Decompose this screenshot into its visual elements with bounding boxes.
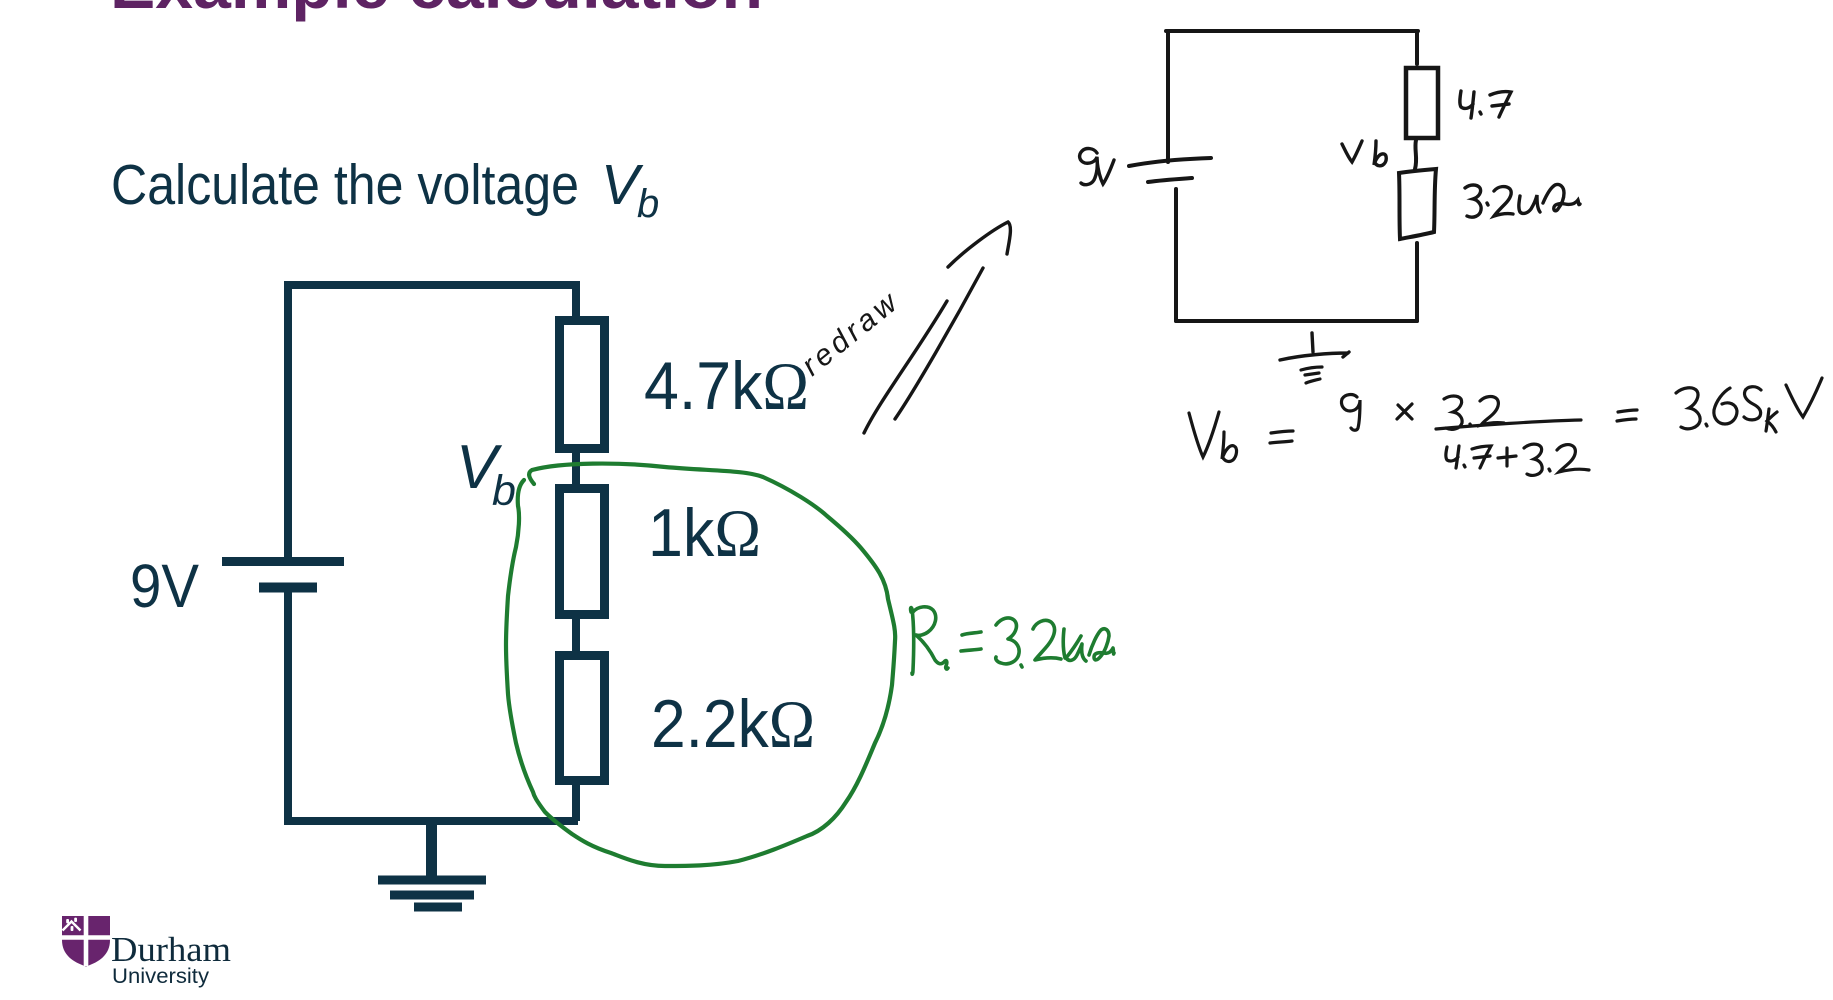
hw wire left upper <box>1166 31 1170 162</box>
green ohm cursive <box>1089 629 1114 660</box>
svg-text:1kΩ: 1kΩ <box>648 495 761 571</box>
formula second = <box>1617 410 1637 421</box>
svg-text:Durham: Durham <box>111 930 231 969</box>
logo lions <box>66 918 77 931</box>
formula 9 <box>1341 395 1360 431</box>
formula V <box>1189 412 1219 457</box>
battery 9V short plate <box>259 583 317 593</box>
battery 9V long plate <box>222 557 344 566</box>
wire R3 to bottom <box>572 782 580 821</box>
prompt text "Calculate the voltage Vb" <box>111 153 659 226</box>
logo shield cross horizontal <box>62 935 110 940</box>
hw label 4.7 <box>1460 91 1511 118</box>
green = <box>961 632 981 651</box>
hw wire between resistors <box>1415 140 1416 169</box>
formula result 3.65kV <box>1676 388 1700 429</box>
svg-text:b: b <box>637 182 659 226</box>
hw resistor 3.2k body <box>1399 169 1436 239</box>
green text R = 3.2kOhm <box>911 607 1114 674</box>
green R <box>911 608 914 675</box>
hw label 3.2k ohm <box>1465 184 1580 217</box>
arrowhead <box>948 222 1010 267</box>
hw battery long plate <box>1129 158 1211 166</box>
formula denominator 4.7+3.2 <box>1446 446 1459 468</box>
hw battery short plate <box>1148 178 1192 182</box>
formula = <box>1270 431 1293 443</box>
svg-text:b: b <box>492 467 516 515</box>
hw label 9V <box>1080 149 1114 185</box>
svg-text:2.2kΩ: 2.2kΩ <box>651 686 815 762</box>
wire R1 to R2 <box>572 450 580 487</box>
resistor R2 1k body <box>560 489 605 615</box>
wire left vertical lower (battery - to bottom) <box>284 587 292 825</box>
formula numerator 3.2 <box>1444 396 1462 429</box>
hw ground bar <box>1280 352 1349 360</box>
wire left vertical upper (battery + to top) <box>284 281 292 562</box>
green loop around 1k and 2.2k <box>506 464 895 866</box>
resistor R3 2.2k body <box>560 656 605 781</box>
hw ground stem <box>1312 333 1313 352</box>
wire top horizontal <box>284 281 578 289</box>
svg-text:9V: 9V <box>130 552 199 620</box>
logo chevron top-left <box>63 922 81 931</box>
resistor R1 4.7k body <box>560 321 605 449</box>
hw wire bottom <box>1176 319 1417 323</box>
wire bottom horizontal <box>284 817 578 825</box>
svg-text:4.7kΩ: 4.7kΩ <box>644 348 809 424</box>
hw wire right lower <box>1415 243 1419 321</box>
svg-text:University: University <box>112 965 210 988</box>
hw wire left lower <box>1174 189 1178 321</box>
svg-text:Example calculation: Example calculation <box>110 0 763 22</box>
wire R2 to R3 <box>572 616 580 655</box>
arrow stroke 1 <box>864 301 947 433</box>
hw ground dashes <box>1301 367 1322 383</box>
hw resistor 4.7 body <box>1406 68 1438 138</box>
arrow stroke 2 <box>895 268 983 419</box>
hw wire top <box>1166 29 1418 33</box>
green . <box>1021 665 1022 667</box>
green k (cursive u) <box>1063 629 1086 661</box>
svg-text:Calculate the voltage: Calculate the voltage <box>111 153 579 217</box>
hw wire right upper <box>1415 31 1419 64</box>
ground symbol <box>378 821 486 907</box>
logo shield <box>62 916 110 967</box>
green 2 <box>1033 620 1061 660</box>
green 3 <box>996 618 1019 664</box>
formula b sub <box>1222 432 1237 461</box>
formula fraction bar <box>1436 420 1581 429</box>
wire right vertical top (to R1) <box>572 281 580 318</box>
formula x <box>1397 404 1412 419</box>
logo shield cross vertical <box>84 916 89 966</box>
hw label V b node <box>1342 141 1386 166</box>
